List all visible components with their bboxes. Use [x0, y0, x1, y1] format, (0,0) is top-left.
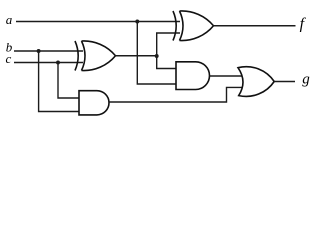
wire AND1 output routed to OR: [109, 87, 243, 102]
svg-text:g: g: [302, 72, 310, 88]
node XOR1-out junction dot: [155, 54, 159, 58]
svg-text:c: c: [6, 51, 12, 66]
and gate U4 (a and (b xor c)): [176, 62, 209, 90]
wire c input line: [14, 62, 83, 64]
wire XOR1 output: [116, 55, 157, 57]
wire XOR1-out branch up to XOR2: [157, 33, 180, 56]
xor gate U1 (b xor c): [75, 41, 116, 71]
wire b input line: [14, 50, 83, 52]
wire c branch down to AND1: [58, 63, 80, 99]
wire g output line: [274, 81, 295, 83]
wire b branch down to AND1: [39, 51, 80, 112]
wire AND2 output to OR: [210, 75, 243, 77]
wire a input line: [16, 21, 180, 23]
svg-text:a: a: [6, 12, 13, 27]
node a junction dot: [135, 20, 139, 24]
node b junction dot: [37, 49, 41, 53]
and gate U3 (b and c): [79, 91, 109, 115]
node c junction dot: [56, 61, 60, 65]
xor gate U2 (output f): [173, 11, 214, 41]
wire XOR1-out branch down to AND2: [157, 56, 177, 69]
or gate U5 (output g): [238, 67, 274, 97]
svg-text:f: f: [300, 16, 307, 33]
wire a branch down to AND2: [137, 22, 176, 85]
wire f output line: [214, 25, 296, 27]
